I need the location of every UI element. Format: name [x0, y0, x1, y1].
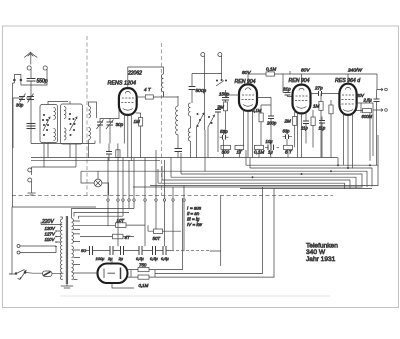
wire earth lead down: [13, 80, 15, 207]
gang capacitor dashed link 1: [86, 36, 88, 196]
dashed link cap bank: [171, 250, 209, 252]
tuning capacitor C-var1: [97, 120, 104, 130]
coil L2a: [64, 107, 66, 119]
tube V4 RES964 envelope: [339, 84, 356, 115]
wire supply feeds below terminals: [108, 201, 184, 251]
svg-text:III = lg: III = lg: [187, 217, 200, 222]
wire coupling cap to tube V3 grid: [283, 93, 293, 97]
wire tube V2 cathode leads down: [244, 109, 253, 158]
resistor 0.1M row: [255, 145, 264, 149]
oscillator coil A: [161, 74, 163, 92]
wire resistor 4T to coil B: [153, 92, 178, 97]
rectifier tube RGN envelope: [98, 264, 128, 284]
coil L2b: [64, 128, 66, 140]
tube V3 internals: [295, 88, 308, 108]
capacitor 150p: [222, 90, 229, 102]
wire pickup posts down: [205, 59, 222, 131]
svg-text:IV = kw: IV = kw: [187, 222, 203, 227]
staircase wire 3: [81, 130, 367, 187]
capacitor 10u 1u: [265, 145, 279, 151]
svg-text:340 W: 340 W: [306, 249, 326, 256]
antenna: [24, 52, 37, 64]
resistor 0.1M plate load: [266, 72, 275, 76]
staircase wire 1: [246, 150, 378, 186]
secondary taps: [73, 221, 80, 280]
wire tube V3 cathode leads: [298, 112, 307, 158]
feed-through terminals: [107, 199, 185, 201]
output terminal 2: [373, 109, 383, 112]
resistor 0.1M supply: [138, 275, 149, 279]
wire pickup bus: [192, 73, 222, 75]
resistor bias vertical: [116, 150, 120, 158]
wire tube V1 cathode leads: [124, 113, 131, 161]
svg-text:100μ: 100μ: [96, 256, 106, 261]
resistor 2M vertical: [223, 102, 227, 111]
svg-text:4T: 4T: [125, 235, 130, 240]
chassis dashed separator line: [12, 195, 333, 197]
capacitor 100 cathode: [106, 144, 112, 161]
antenna series capacitor: [27, 124, 36, 129]
svg-text:2μ: 2μ: [118, 256, 124, 261]
resistor 600: [363, 109, 372, 113]
svg-text:11p: 11p: [319, 126, 326, 131]
wire tube V1 grid cap to osc coil: [128, 67, 164, 88]
capacitor below coil B: [175, 149, 183, 158]
svg-text:1T: 1T: [237, 150, 244, 155]
wire 50T out: [148, 225, 181, 231]
wire coil B top/bottom: [177, 96, 179, 149]
wire tuner bottom bus: [31, 140, 95, 167]
wire caps to tube1 grid: [100, 104, 120, 122]
staircase wire 7: [158, 169, 345, 189]
chassis ground bar: [28, 185, 36, 195]
capacitor 27p interstage: [311, 91, 340, 96]
pickup plug post 1: [201, 53, 205, 59]
ground bus wire 2: [31, 160, 160, 162]
capacitor 53p: [220, 135, 229, 140]
coil C upper: [188, 103, 190, 116]
staircase wire 2: [250, 158, 372, 187]
svg-text:300: 300: [222, 150, 230, 155]
wire 1M leads: [320, 94, 322, 158]
power transformer primary winding: [60, 219, 62, 280]
svg-text:0,5μ: 0,5μ: [161, 256, 170, 261]
wire heater routing to transformer: [72, 209, 135, 219]
svg-text:2M: 2M: [284, 119, 292, 124]
wire plate load to coupling node: [275, 74, 378, 93]
wire grid leak: [294, 108, 296, 147]
wire sg node: [257, 98, 271, 111]
resistor 4T: [113, 234, 124, 239]
resistor 1M vertical: [139, 118, 143, 127]
band switch S1: [42, 114, 50, 135]
svg-text:50T: 50T: [153, 236, 161, 241]
output terminal 1: [377, 88, 383, 91]
wire antenna post to cap: [21, 73, 47, 85]
svg-text:10μ: 10μ: [266, 139, 274, 144]
capacitor 31p coupling: [285, 93, 291, 96]
svg-text:1M: 1M: [134, 119, 141, 124]
wire 2M bottom: [225, 111, 227, 132]
wire coil A bottom: [163, 92, 165, 96]
svg-text:II = an: II = an: [187, 211, 200, 216]
capacitor 63p: [283, 132, 293, 146]
tuning capacitor C-var2: [106, 120, 114, 130]
tube V3 REN904 envelope: [293, 85, 311, 114]
earth bracket: [14, 75, 22, 81]
coil B: [176, 106, 178, 135]
paper fold line: [60, 295, 330, 297]
svg-text:I = aus: I = aus: [187, 206, 202, 211]
wire tube V3 plate top: [290, 71, 302, 85]
wire cap 500p stems: [191, 74, 193, 104]
svg-text:4 T: 4 T: [144, 87, 152, 92]
coil C lower: [188, 128, 190, 141]
svg-text:750: 750: [139, 263, 147, 268]
svg-text:0,5μ: 0,5μ: [136, 256, 145, 261]
dial lamp: [81, 171, 109, 195]
gang capacitor dashed link 2: [161, 43, 163, 196]
wire tube V4 cathode leads: [344, 113, 353, 169]
wire grid tube V2 from switch: [226, 94, 240, 96]
coil L3b: [89, 128, 91, 140]
staircase wire 4: [181, 153, 362, 188]
staircase wire 6: [162, 166, 350, 189]
resistor 5T: [284, 145, 293, 149]
antenna plug post 1: [27, 66, 31, 73]
resistor anode feed V3: [311, 117, 315, 126]
mains terminal circles: [17, 245, 20, 248]
wire tube V1 anode: [137, 96, 146, 98]
legend text: [187, 206, 203, 228]
resistor 10T: [116, 223, 127, 228]
resistor 50T: [154, 229, 163, 234]
antenna plug post 2: [43, 66, 47, 73]
coil L1b: [54, 129, 56, 141]
svg-text:110V: 110V: [45, 237, 56, 242]
svg-text:150p: 150p: [219, 92, 230, 97]
resistor 1T: [235, 145, 244, 149]
staircase wire 5: [171, 158, 356, 189]
wire coil L3 to grid caps: [89, 102, 97, 118]
staircase bottom bus 1: [150, 185, 378, 187]
pickup plug post 2: [218, 53, 222, 59]
wire rectifier leads: [80, 259, 134, 288]
wire 4T row: [80, 236, 134, 238]
tuner band filter box 2: [61, 104, 83, 144]
svg-text:220V: 220V: [41, 219, 54, 225]
svg-text:RENS 1204: RENS 1204: [108, 81, 136, 87]
capacitor 500p: [189, 87, 196, 90]
svg-text:2M: 2M: [217, 105, 225, 110]
chassis terminal post 1: [28, 168, 32, 175]
wire resistor 600 leads: [357, 104, 363, 111]
wire heater drops to supply: [108, 150, 184, 199]
svg-text:10T: 10T: [117, 218, 125, 223]
svg-text:30p: 30p: [16, 103, 24, 108]
wire 1M resistor leads: [136, 113, 141, 158]
svg-text:80V: 80V: [242, 70, 251, 76]
resistor 300: [221, 145, 231, 149]
wire tuner top connections: [48, 101, 70, 105]
wire V4 screen drop: [338, 135, 378, 165]
svg-text:5C: 5C: [81, 248, 86, 253]
wire 10T row: [80, 224, 145, 226]
wire tube V4 right side: [357, 103, 377, 165]
svg-text:127V: 127V: [45, 232, 56, 237]
capacitor 1u tone: [319, 117, 325, 158]
svg-text:130V: 130V: [45, 226, 56, 231]
pickup switch: [216, 79, 227, 86]
transformer ground: [61, 284, 73, 288]
svg-text:27p: 27p: [314, 86, 323, 91]
svg-text:0,1M: 0,1M: [266, 67, 276, 72]
tube V2 internals: [242, 88, 255, 106]
svg-text:600M: 600M: [362, 114, 373, 119]
wire caps bottom to bus: [100, 125, 110, 144]
wire 2M bias leads: [330, 100, 332, 158]
wire coil C middle and bottom: [190, 116, 192, 157]
svg-text:REN 904: REN 904: [289, 78, 310, 84]
tube V1 RENS1204 envelope: [119, 88, 137, 115]
wire tube V4 plate to output: [348, 74, 377, 90]
svg-text:2,5μ: 2,5μ: [363, 98, 373, 103]
svg-text:240/W: 240/W: [347, 68, 362, 74]
trimmer capacitor pair: [13, 94, 34, 149]
wave switch arrows: [197, 113, 215, 158]
svg-text:5 T: 5 T: [285, 150, 293, 155]
transformer core: [66, 216, 67, 284]
resistor 1M V4 grid: [319, 102, 323, 111]
wire row to bus stubs: [224, 131, 289, 158]
svg-text:500p: 500p: [196, 88, 207, 94]
wire tube V2 anode to top: [248, 74, 266, 84]
capacitor 550p: [27, 79, 36, 82]
mains switch: [9, 270, 33, 280]
wire rectifier to resistors: [128, 270, 139, 278]
wire supply mid verticals: [210, 196, 221, 267]
coil L3a with gang line: [89, 106, 91, 118]
power transformer secondary winding: [72, 219, 74, 280]
svg-text:80V: 80V: [301, 68, 310, 74]
svg-text:63p: 63p: [283, 129, 291, 134]
mains enclosure wire: [9, 207, 96, 274]
coil L1a: [54, 108, 56, 120]
resistor 750: [138, 268, 149, 272]
junction dots staircase: [252, 164, 372, 178]
svg-text:30p: 30p: [116, 122, 124, 127]
svg-text:0,1M: 0,1M: [139, 283, 149, 288]
svg-text:53p: 53p: [220, 129, 228, 134]
svg-text:0,5μ: 0,5μ: [150, 256, 159, 261]
resistor 4T: [145, 95, 153, 99]
tube V2 REN904 envelope: [239, 84, 257, 110]
electrolytic cap bank: [85, 246, 171, 255]
wire supply outputs right: [149, 187, 274, 277]
tube V1 internals: [121, 91, 134, 110]
svg-text:0,1M: 0,1M: [252, 108, 262, 113]
capacitor 200p sg: [268, 110, 274, 146]
staircase bottom bus 2: [133, 187, 372, 189]
ground bus wire: [31, 157, 338, 159]
tuner band filter box 1: [40, 105, 58, 143]
wire antenna lead down: [30, 81, 32, 144]
resistor 0.1M sg: [259, 113, 263, 122]
wire chassis feed: [32, 144, 77, 170]
fuse: [33, 271, 64, 277]
svg-text:31p: 31p: [283, 87, 291, 92]
capacitor 2.5u output: [374, 90, 380, 105]
band switch S2: [69, 113, 77, 135]
capacitor 11p: [303, 115, 309, 144]
resistor 2M bias V4: [329, 105, 333, 114]
svg-text:11p: 11p: [301, 126, 308, 131]
svg-text:22062: 22062: [127, 71, 142, 77]
tube V4 internals: [342, 87, 355, 111]
wire sg resistor: [260, 105, 262, 146]
svg-text:200p: 200p: [266, 121, 277, 126]
svg-text:1M: 1M: [313, 104, 320, 109]
rectifier internals: [120, 268, 122, 280]
wire primary ends: [60, 217, 62, 280]
capacitor 1u mid: [215, 105, 221, 152]
svg-text:550p: 550p: [37, 79, 48, 85]
resistor 2M grid leak V3: [293, 117, 297, 126]
voltage taps: [34, 222, 61, 253]
wire mains leads: [20, 246, 56, 253]
chassis terminal post 2: [28, 178, 32, 185]
svg-text:Jahr 1931: Jahr 1931: [306, 256, 336, 263]
